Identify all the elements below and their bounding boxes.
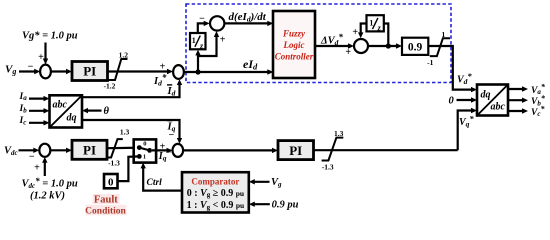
svg-text:1: 1 bbox=[143, 154, 146, 161]
wire Vg into summer S1 bbox=[19, 70, 37, 72]
wire Z2 input tap from S6 output bbox=[384, 24, 389, 47]
svg-text:abc: abc bbox=[53, 100, 68, 111]
svg-text:1.2: 1.2 bbox=[119, 51, 129, 60]
summer S4 Vdc error bbox=[39, 144, 50, 157]
svg-text:+: + bbox=[345, 47, 351, 58]
svg-text:Controller: Controller bbox=[275, 52, 314, 62]
fuzzy logic controller block U1 bbox=[273, 11, 315, 78]
svg-text:0 : Vg ≥ 0.9 pu: 0 : Vg ≥ 0.9 pu bbox=[187, 188, 244, 199]
overline of Id-bar bbox=[167, 84, 172, 85]
wire 0.9 pu into comparator bbox=[252, 203, 269, 205]
svg-text:+: + bbox=[352, 27, 358, 38]
PI controller block PI3 bbox=[278, 141, 314, 160]
svg-text:−: − bbox=[168, 130, 174, 141]
svg-text:Comparator: Comparator bbox=[191, 177, 239, 187]
svg-text:Id: Id bbox=[167, 86, 176, 98]
wire S4 to PI2 bbox=[50, 149, 68, 151]
svg-text:θ: θ bbox=[104, 106, 110, 117]
wire S5 to PI3 bbox=[183, 149, 274, 151]
saturation limiter L3 bbox=[322, 138, 344, 161]
wire Id measured feedback to S2 bbox=[82, 83, 180, 98]
svg-text:+: + bbox=[160, 62, 166, 73]
svg-text:1: 1 bbox=[442, 30, 446, 39]
svg-text:+: + bbox=[220, 35, 226, 46]
wire fuzzy output to summer S6 bbox=[315, 45, 351, 47]
svg-text:dq: dq bbox=[481, 90, 491, 101]
svg-text:Logic: Logic bbox=[283, 40, 305, 50]
wire zero block to switch position 1 bbox=[118, 156, 140, 181]
delay block Z1 (1/z) bbox=[190, 33, 206, 50]
svg-text:dq: dq bbox=[67, 113, 77, 124]
wire Z1 output to summer S3 bbox=[198, 23, 206, 33]
summer S5 Iq error bbox=[173, 144, 184, 157]
wire Ia into abc block bbox=[29, 97, 46, 99]
svg-text:PI: PI bbox=[83, 64, 96, 79]
svg-text:0.9: 0.9 bbox=[408, 41, 423, 53]
svg-text:Fuzzy: Fuzzy bbox=[282, 29, 306, 39]
svg-text:PI: PI bbox=[83, 143, 96, 158]
abc to dq transform block X1 bbox=[50, 95, 83, 127]
svg-text:Ia: Ia bbox=[19, 92, 28, 102]
wire Vdc* reference up into S4 bbox=[44, 161, 46, 177]
svg-text:-1: -1 bbox=[427, 58, 433, 67]
junction dot on eId wire bbox=[195, 69, 200, 74]
svg-text:0: 0 bbox=[143, 141, 146, 148]
svg-text:0: 0 bbox=[449, 96, 455, 107]
wire PI3 to Vq* riser bbox=[314, 149, 458, 151]
junction dot after S6 bbox=[386, 43, 391, 48]
overline of Iq-bar bbox=[167, 120, 172, 121]
svg-text:−: − bbox=[199, 14, 205, 25]
svg-text:+: + bbox=[34, 162, 40, 173]
svg-text:0.9 pu: 0.9 pu bbox=[272, 200, 299, 211]
svg-text:Ctrl: Ctrl bbox=[147, 178, 163, 188]
svg-text:1: 1 bbox=[369, 19, 373, 28]
svg-text:1.3: 1.3 bbox=[120, 128, 130, 137]
zero constant block for fault bbox=[104, 174, 118, 189]
saturation limiter L1 bbox=[109, 59, 128, 80]
svg-text:Ib: Ib bbox=[19, 104, 28, 114]
summer S3 derivative bbox=[210, 16, 224, 30]
svg-text:(1.2 kV): (1.2 kV) bbox=[30, 191, 65, 202]
svg-text:-1.3: -1.3 bbox=[322, 162, 334, 171]
wire Iq measured feedback to S5 bbox=[82, 120, 180, 141]
svg-text:1.3: 1.3 bbox=[334, 129, 344, 138]
gain block 0.9 bbox=[402, 38, 428, 55]
svg-text:0: 0 bbox=[108, 177, 114, 189]
summer S2 Id error bbox=[173, 65, 184, 79]
svg-text:1: 1 bbox=[192, 36, 196, 45]
saturation limiter L2 bbox=[107, 139, 123, 157]
wire switch output to summer S5 bbox=[152, 149, 169, 151]
wire Vg* down into summer S1 bbox=[44, 43, 46, 60]
wire Vdc into summer S4 bbox=[19, 149, 36, 151]
wire output Vb* bbox=[508, 99, 525, 101]
wire 0 into dq block bbox=[457, 99, 474, 101]
svg-text:PI: PI bbox=[289, 143, 302, 158]
wire PI1 to summer S2 bbox=[108, 70, 170, 72]
summer S6 integrator bbox=[354, 39, 368, 53]
wire Ib into abc block bbox=[29, 110, 46, 112]
wire output Va* bbox=[508, 88, 525, 90]
summer S1 Vg error bbox=[40, 65, 51, 79]
wire Vq* riser into dq block bbox=[458, 111, 474, 151]
fault condition highlight bbox=[93, 194, 120, 204]
svg-text:Ic: Ic bbox=[19, 116, 27, 126]
wire S6 to gain block bbox=[368, 45, 399, 47]
wire Vg into comparator bbox=[252, 181, 269, 183]
wire theta into abc block bbox=[86, 109, 102, 111]
svg-text:1 : Vg < 0.9 pu: 1 : Vg < 0.9 pu bbox=[187, 200, 245, 211]
wire S6 top feedback from delay Z2 bbox=[361, 24, 367, 35]
svg-text:−: − bbox=[29, 151, 35, 162]
svg-text:abc: abc bbox=[491, 102, 506, 113]
svg-text:Vg* = 1.0 pu: Vg* = 1.0 pu bbox=[22, 31, 78, 42]
wire tap up from eId to 1/z and derivative summer bbox=[198, 35, 217, 73]
svg-text:+: + bbox=[38, 52, 44, 63]
wire gain to dq block via corner bbox=[428, 46, 474, 90]
wire S3 to fuzzy controller d(eId)/dt bbox=[224, 22, 269, 24]
svg-text:-1.2: -1.2 bbox=[104, 82, 116, 91]
svg-text:Fault: Fault bbox=[94, 195, 118, 206]
dashed derivative/fuzzy boundary box bbox=[186, 4, 451, 83]
wire output Vc* bbox=[508, 110, 525, 112]
PI controller block PI1 bbox=[72, 62, 108, 81]
wire S2 to fuzzy controller (eId) bbox=[184, 71, 270, 73]
wire PI2 to switch bbox=[107, 147, 139, 150]
svg-text:−: − bbox=[28, 62, 34, 73]
saturation limiter L4 bbox=[430, 38, 450, 56]
wire into delay block Z1 bottom bbox=[197, 54, 199, 57]
comparator block U2 bbox=[182, 172, 249, 212]
wire S1 to PI1 bbox=[51, 70, 69, 72]
dq to abc transform block X2 bbox=[477, 85, 508, 116]
svg-text:Condition: Condition bbox=[85, 207, 126, 217]
switch block SW1 bbox=[134, 139, 156, 162]
wire Ic into abc block bbox=[29, 122, 46, 124]
svg-text:-1.3: -1.3 bbox=[108, 159, 120, 168]
delay block Z2 (1/z) bbox=[367, 15, 384, 32]
wire Ctrl from comparator to switch bbox=[143, 166, 182, 191]
PI controller block PI2 bbox=[72, 140, 107, 159]
